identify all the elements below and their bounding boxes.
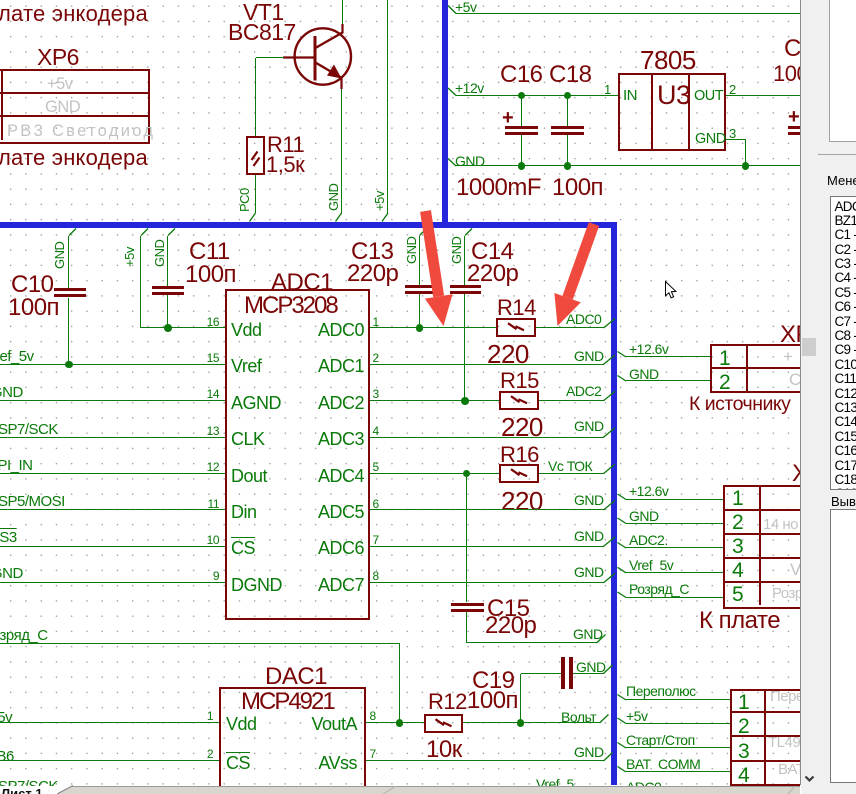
net label SP5/MOSI (clipped) — [0, 493, 65, 510]
resistor R14 designator — [497, 295, 536, 321]
XP3 row4 gray text BA — [778, 761, 805, 778]
wire ADC0 pin1 to R14 — [370, 327, 496, 328]
wire C19 right to GND tick — [573, 673, 604, 674]
net label GND (ADC6 row) — [574, 528, 604, 544]
panel component listbox — [830, 196, 856, 490]
note text К плате — [699, 607, 780, 635]
bottom sheet tab bar — [57, 786, 800, 794]
resistor R16 body — [499, 464, 539, 483]
net label GND (C15) — [573, 626, 603, 642]
net label GND at C14 (rotated) — [449, 237, 464, 264]
wire C11 to Vdd line — [167, 295, 168, 328]
pin number 15 — [0, 352, 219, 366]
net label +5v at C11 (rotated) — [122, 247, 137, 267]
resistor R14 value 220 — [487, 339, 529, 369]
net label GND (ADC7 row) — [574, 564, 604, 580]
capacitor C16 plates — [505, 126, 538, 129]
wire GND to C14 — [464, 236, 465, 285]
pin label ADC3 — [64, 429, 364, 450]
XP3 row1 gray text Пер — [770, 688, 811, 705]
capacitor C13 value 220p — [347, 260, 398, 288]
panel divider — [818, 154, 856, 155]
net label Vref_5v bottom (clipped) — [536, 776, 574, 792]
junction C19/VoutA — [517, 719, 525, 727]
pin label DGND — [231, 575, 282, 596]
junction GND/U3 pin3 — [742, 162, 750, 170]
pin number 12 — [0, 461, 219, 475]
panel title Менеджер (clipped) — [827, 173, 856, 188]
pin number 8 — [373, 570, 379, 584]
wire R15 to border — [539, 400, 604, 401]
pin label ADC6 — [64, 538, 364, 559]
capacitor C14 plates — [450, 285, 481, 288]
wire C14 to ADC2 — [464, 294, 465, 401]
wire ADC2 pin3 to R15 — [370, 400, 499, 401]
junction VoutA/Розряд_С — [396, 719, 404, 727]
pin label ADC7 — [64, 575, 364, 596]
connector XP6 designator — [37, 44, 79, 71]
wire GND rail (top-right) — [456, 165, 800, 166]
U3 pin label GND — [695, 131, 726, 148]
net label GND at C10 (rotated) — [52, 242, 67, 269]
panel second listbox — [830, 509, 856, 783]
transistor VT1 type BC817 — [228, 19, 296, 46]
wire C18 bottom — [567, 135, 568, 166]
DAC pin number 2 — [0, 748, 213, 762]
XP3 pin number 4 — [738, 764, 750, 788]
DAC pin label AVss — [57, 753, 357, 774]
wire AVss to border — [366, 760, 604, 761]
net label Вольт — [561, 709, 596, 725]
net label +5v (7805 out) — [455, 0, 476, 15]
capacitor C11 value 100п — [185, 261, 236, 289]
wire VT1 emitter down (GND) — [341, 89, 342, 214]
wire C19 to plates — [521, 673, 562, 674]
pin number 9 — [0, 570, 219, 584]
net label GND (C19) — [576, 659, 606, 675]
pin label ADC1 — [64, 356, 364, 377]
capacitor C14 designator — [471, 238, 514, 266]
sheet border vertical (right) — [611, 222, 617, 785]
wire VT1 base — [256, 57, 285, 58]
XP2 pin number 3 — [732, 535, 744, 559]
net label GND (top-right) — [455, 153, 485, 169]
capacitor C13 designator — [351, 238, 394, 266]
XP6 pin label PB3 Светодиод — [7, 122, 155, 141]
wire GND to C13 — [419, 236, 420, 285]
wire +12.6v to XP src — [626, 356, 710, 357]
wire +5v vertical (top sheet) — [387, 0, 388, 214]
capacitor C17 polarity + — [788, 106, 799, 129]
capacitor C10 designator — [11, 271, 54, 299]
capacitor C15 value 220p — [485, 612, 536, 640]
IC DAC1 designator — [265, 663, 327, 691]
wire U3 GND down — [745, 140, 746, 167]
net label +12.6v (to XP src) — [629, 341, 668, 357]
net label +5v DAC (clipped) — [0, 709, 12, 726]
pin label ADC5 — [64, 502, 364, 523]
net label SP7/SCK (clipped) — [0, 421, 58, 438]
XP6 pin label +5v — [47, 75, 73, 94]
net label +5v top sheet (rotated) — [372, 191, 387, 211]
net label SP7/SCK bottom (clipped) — [0, 778, 58, 794]
wire to pin 15 (Vref) — [0, 364, 225, 365]
net label GND pin14 (clipped) — [0, 384, 23, 401]
wire Переполюс to XP3 — [626, 699, 730, 700]
wire GND to C11 — [167, 236, 168, 286]
wire BAT_COMM to XP3 — [626, 771, 730, 772]
U3 internal dividers — [651, 73, 653, 151]
panel label Вывод (clipped) — [831, 494, 856, 509]
net label Старт/Стоп — [626, 732, 695, 748]
resistor R12 body — [424, 714, 463, 733]
wire +5v to Vdd — [141, 327, 225, 328]
net label GND at VT1 emitter (rotated) — [326, 184, 341, 211]
pin label CLK — [231, 429, 265, 450]
capacitor C19 designator — [472, 667, 515, 695]
pin number 5 — [373, 461, 379, 475]
junction C14/ADC2 — [461, 397, 469, 405]
wire C16 bottom — [521, 135, 522, 166]
wire R16 to border — [539, 473, 604, 474]
wire +12.6v to К плате — [626, 499, 723, 500]
resistor R16 designator — [500, 442, 539, 468]
net label ADC0 — [566, 311, 601, 327]
wire U3 GND stub — [726, 139, 746, 140]
wire ADC3 (GND) to border — [370, 437, 604, 438]
net label +12.6v (to К плате) — [629, 483, 668, 499]
wire Розряд_С down to VoutA — [399, 644, 400, 723]
resistor R12 value 10к — [426, 736, 462, 764]
capacitor C17 plates (clipped) — [788, 126, 816, 129]
transistor VT1 designator — [243, 0, 284, 26]
wire C15 bottom — [466, 612, 467, 643]
XP2 pin number 1 — [732, 487, 744, 511]
wire ADC4 pin5 to R16 — [370, 473, 499, 474]
pin label ADC0 — [64, 320, 364, 341]
wire to pin 13 (CLK) — [0, 437, 225, 438]
junction +12v/C18 — [564, 92, 572, 100]
XP2 row5 gray text Розр — [772, 585, 803, 602]
wire GND to C10 — [68, 236, 69, 289]
pin label ADC2 — [64, 393, 364, 414]
U3 pin number 3 — [729, 126, 736, 141]
DAC pin number 7 — [370, 748, 376, 762]
wire +5v from regulator — [456, 13, 800, 14]
pin number 16 — [0, 316, 219, 330]
capacitor C18 value 100п — [552, 174, 603, 202]
net label PC0 (rotated) — [237, 188, 252, 212]
wire R11 bottom to border (PC0) — [255, 175, 256, 213]
capacitor C19 value 100п — [467, 687, 518, 715]
net label GND (to XP src) — [629, 366, 659, 382]
pin label CS (with overline) — [231, 538, 255, 559]
U3 pin number 2 — [729, 82, 736, 97]
net label ADC0 bottom (clipped) — [626, 779, 661, 794]
capacitor C15 plates — [451, 603, 484, 606]
pin number 6 — [373, 498, 379, 512]
pin label Vref — [231, 356, 261, 377]
U3 name U3 — [657, 80, 691, 111]
resistor R16 value 220 — [501, 486, 543, 516]
wire VT1 collector up — [342, 0, 343, 24]
wire to pin 14 (AGND) — [0, 400, 225, 401]
net label Vc ТОК — [548, 458, 592, 474]
XP3 pin number 1 — [738, 691, 750, 715]
net label GND (ADC1 row) — [574, 348, 604, 364]
wire R12 to Вольт — [463, 722, 600, 723]
wire C15 to GND tick — [467, 642, 597, 643]
wire GND to XP src — [626, 380, 710, 381]
net label GND (ADC3 row) — [574, 418, 604, 434]
pin number 10 — [0, 534, 219, 548]
resistor R12 designator — [428, 689, 467, 715]
resistor R15 value 220 — [501, 412, 543, 442]
XP src pin number 2 — [719, 371, 731, 395]
net label Розряд_С (clipped) — [0, 627, 48, 644]
capacitor C15 designator — [487, 595, 530, 623]
wire ADC7 (GND) to border — [370, 582, 604, 583]
DAC pin label CS (overline) — [226, 753, 250, 774]
wire ADC2. to К плате — [626, 547, 723, 548]
resistor R11 designator — [267, 132, 304, 158]
resistor R11 value 1,5к — [266, 152, 304, 178]
net label GND (ADC5 row) — [574, 492, 604, 508]
connector XP2 (К плате) body — [723, 485, 834, 609]
pin number 11 — [0, 498, 219, 512]
net label ADC2 — [566, 383, 601, 399]
net label ADC2. (to К плате) — [629, 532, 668, 548]
net label Vref_5v (clipped) — [0, 348, 34, 365]
wire C19 up — [520, 674, 521, 724]
capacitor C14 value 220p — [467, 260, 518, 288]
junction C13/ADC0 — [416, 324, 424, 332]
resistor R15 designator — [500, 368, 539, 394]
net label Розряд_С (to К плате) — [629, 581, 689, 597]
pin label Dout — [231, 466, 267, 487]
net label +12v — [455, 80, 484, 96]
note text К источнику (clipped) — [689, 393, 790, 416]
XP3 pin number 3 — [738, 740, 750, 764]
wire ADC1 (GND) to border — [370, 364, 604, 365]
pin label AGND — [231, 393, 281, 414]
wire +12v to U3 IN — [456, 95, 618, 96]
schematic canvas right edge — [800, 0, 801, 785]
IC DAC1 MCP4921 body — [219, 687, 366, 794]
capacitor C10 value 100п — [8, 294, 59, 322]
wire Старт/Стоп to XP3 — [626, 747, 730, 748]
pin label Din — [231, 502, 257, 523]
junction GND/C18 — [564, 162, 572, 170]
XP6 pin label GND — [45, 98, 80, 117]
capacitor C17 value (clipped) — [773, 61, 808, 87]
wire C18 top — [567, 96, 568, 126]
net label GND pin10 (clipped) — [0, 565, 23, 582]
U3 pin number 1 — [604, 82, 611, 97]
IC DAC1 type MCP4921 — [241, 688, 334, 716]
net label S3 with overline (clipped) — [0, 529, 17, 546]
XP2 pin number 5 — [732, 583, 744, 607]
pin label Vdd — [231, 320, 262, 341]
wire Розряд_С to К плате — [626, 597, 723, 598]
capacitor C11 designator — [189, 238, 230, 266]
pin number 3 — [373, 388, 379, 402]
resistor R11 body — [246, 136, 265, 175]
connector XP3 body (bottom right) — [730, 689, 844, 794]
note text 'лате энкодера' (bottom) — [0, 145, 148, 171]
XP src pin number 1 — [719, 347, 731, 371]
connector XP6 body — [0, 69, 150, 144]
capacitor C18 plates — [551, 126, 584, 129]
net label GND (AVss row) — [574, 744, 604, 760]
IC ADC1 type MCP3208 — [244, 292, 337, 320]
XP2 row2 gray text 14 но — [763, 516, 798, 533]
wire +5v to DAC Vdd — [0, 722, 219, 723]
IC ADC1 designator — [271, 269, 333, 297]
scrollbar thumb — [802, 338, 816, 356]
capacitor C19 plates (vertical) — [561, 657, 565, 689]
pin number 14 — [0, 388, 219, 402]
junction GND/C16 — [518, 162, 526, 170]
sheet border horizontal — [0, 222, 617, 228]
XP src row2 gray fragment — [789, 370, 801, 390]
wire CS row DAC — [0, 760, 219, 761]
wire to pin 11 (Din) — [0, 509, 225, 510]
junction C10/Vref — [65, 361, 73, 369]
regulator U3 type 7805 — [640, 45, 696, 75]
net label +5v — [626, 708, 647, 724]
net label Vref_5v (to К плате) — [629, 557, 673, 573]
regulator U3 body — [618, 73, 726, 151]
capacitor C16 polarity + — [502, 107, 513, 130]
wire +5v down — [140, 236, 141, 329]
net label GND at C11 (rotated) — [152, 240, 167, 267]
resistor R15 body — [499, 391, 539, 410]
junction +12v/C16 — [518, 92, 526, 100]
wire VT1 base down to R11 — [255, 58, 256, 137]
wire GND to К плате — [626, 523, 723, 524]
DAC pin label Vdd — [226, 714, 257, 735]
connector XP designator (clipped) — [780, 321, 824, 349]
DAC pin number 8 — [370, 710, 376, 724]
net label PB6 (clipped) — [0, 748, 14, 765]
net label SPI_IN (clipped) — [0, 457, 33, 474]
U3 pin label IN — [623, 87, 637, 104]
connector XP2 designator (clipped) — [792, 460, 823, 488]
connector XP (К источнику) body — [710, 344, 834, 393]
right panel background — [801, 0, 856, 794]
pin label ADC4 — [64, 466, 364, 487]
wire to pin 12 (Dout) — [0, 473, 225, 474]
DAC pin label VoutA — [57, 714, 357, 735]
wire U3 OUT — [726, 95, 801, 96]
XP2 row4 gray fragment — [790, 560, 801, 580]
pin number 13 — [0, 425, 219, 439]
wire Vref_5v to К плате — [626, 572, 723, 573]
note text 'лате энкодера' (top) — [0, 1, 148, 27]
net label GND at C13 (rotated) — [404, 237, 419, 264]
active sheet tab name Лист 1 (clipped) — [1, 786, 43, 794]
capacitor C18 designator — [549, 61, 592, 89]
resistor R14 body — [496, 318, 536, 337]
U3 pin label OUT — [694, 88, 723, 105]
XP3 pin number 2 — [738, 715, 750, 739]
XP3 row3 gray text TL49 — [768, 734, 808, 751]
active sheet tab (white) — [0, 786, 57, 794]
DAC pin number 1 — [0, 710, 213, 724]
pin number 4 — [373, 425, 379, 439]
wire VoutA to R12 — [366, 722, 425, 723]
wire to pin 10 (CS) — [0, 546, 225, 547]
net label GND (to К плате) — [629, 508, 659, 524]
wire C13 to ADC0 — [419, 294, 420, 328]
net label Переполюс — [626, 683, 696, 699]
wire C10 to Vref line — [68, 298, 69, 365]
wire C16 top — [521, 96, 522, 126]
pin number 2 — [373, 352, 379, 366]
wire to pin 9 (DGND) — [0, 582, 225, 583]
wire ADC4 down to C15 — [466, 474, 467, 603]
pin number 7 — [373, 534, 379, 548]
capacitor C16 designator — [500, 61, 543, 89]
capacitor C17 designator (clipped) — [784, 35, 827, 63]
XP src row1 gray + — [783, 347, 792, 367]
junction C15/ADC4 — [463, 470, 471, 478]
junction C11/Vdd — [164, 324, 172, 332]
wire +5v to XP3 — [626, 723, 730, 724]
capacitor C10 plates — [54, 288, 86, 291]
net label BAT_COMM — [626, 756, 700, 772]
XP2 pin number 4 — [732, 559, 744, 583]
XP2 pin number 2 — [732, 511, 744, 535]
wire ADC5 (GND) to border — [370, 509, 604, 510]
wire R14 to border — [536, 327, 604, 328]
wire ADC6 (GND) to border — [370, 546, 604, 547]
sheet border vertical (top) — [442, 0, 448, 224]
capacitor C13 plates — [405, 285, 436, 288]
capacitor C16 value 1000mF — [456, 174, 541, 202]
IC ADC1 MCP3208 body — [225, 289, 371, 620]
pin number 1 — [373, 316, 379, 330]
capacitor C11 plates — [152, 286, 184, 289]
panel white group box (top) — [829, 0, 856, 142]
wire Розряд_С — [0, 643, 400, 644]
